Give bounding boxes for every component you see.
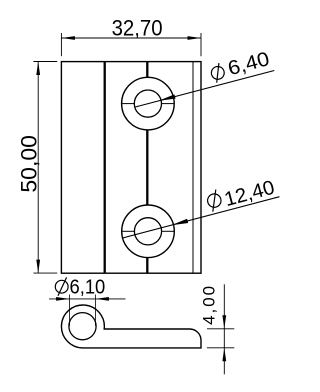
hole bottom centerline ticks (122, 230, 175, 232)
hole top inner circle (134, 90, 161, 117)
hole top centerline ticks (122, 103, 175, 105)
dim 4,00 extension ticks (207, 329, 234, 348)
dim 50,00 arrow top (36, 62, 40, 76)
label Ø 12,40 (rotated) (205, 175, 277, 216)
leader Ø 12,40 arrow (171, 219, 188, 225)
dim 50,00 extension ticks (33, 62, 57, 274)
dim 32,70 arrow left (61, 36, 75, 40)
curl tangent line right (thin) (192, 62, 194, 274)
dim 4,00 arrow bottom (222, 348, 226, 362)
dim 50,00 arrow bottom (36, 260, 40, 274)
label Ø 6,40 (rotated) (209, 48, 272, 85)
leader Ø 12,40 line (123, 197, 280, 238)
dim 50,00 line (37, 62, 39, 274)
plate outline (front view rectangle) (61, 62, 201, 274)
dim 4,00 line (223, 284, 225, 374)
bend line left (thick) (104, 62, 106, 274)
dim 32,70 line (61, 37, 201, 39)
dim Ø 6,10 arrow right (95, 297, 109, 301)
dim 32,70 extension lines (61, 33, 201, 56)
svg-text:32,70: 32,70 (112, 15, 163, 40)
leader Ø 6,40 arrow (159, 94, 176, 100)
dim 4,00 arrow top (222, 315, 226, 329)
svg-text:4,00: 4,00 (199, 286, 218, 325)
leader Ø 6,40 line (135, 71, 274, 108)
side view profile (J-curl) (61, 305, 201, 348)
hole bottom outer circle (122, 205, 175, 258)
dim 32,70 arrow right (188, 36, 202, 40)
dim Ø 6,10 arrow left (56, 297, 70, 301)
hole bottom inner circle (134, 218, 161, 245)
hole top outer circle (122, 77, 175, 130)
svg-text:50,00: 50,00 (16, 135, 41, 193)
svg-text:6,10: 6,10 (70, 276, 106, 298)
bend line center (thick, interrupted by holes) (146, 62, 148, 274)
dim Ø 6,10 line (49, 298, 126, 300)
side view pin hole (69, 313, 96, 340)
label Ø 6,10 (55, 276, 105, 298)
dim Ø 6,10 extension lines (70, 295, 96, 326)
